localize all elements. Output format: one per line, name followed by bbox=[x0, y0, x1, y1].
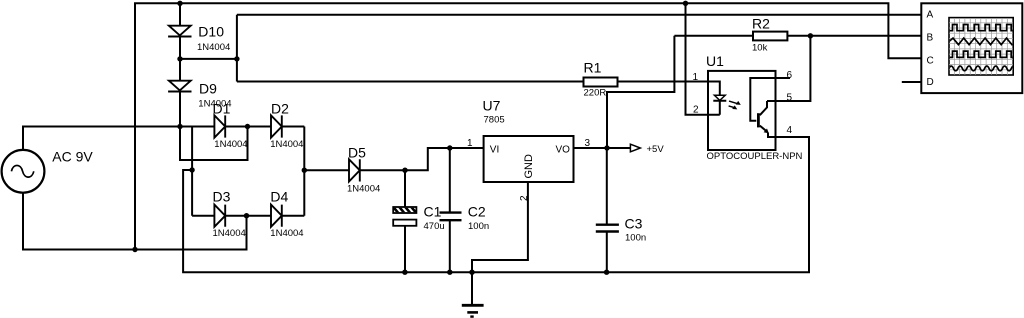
svg-text:4: 4 bbox=[787, 125, 793, 136]
svg-text:6: 6 bbox=[787, 70, 793, 81]
svg-text:D5: D5 bbox=[348, 144, 366, 160]
svg-text:1: 1 bbox=[692, 72, 698, 83]
svg-text:D4: D4 bbox=[270, 189, 288, 205]
svg-text:100n: 100n bbox=[468, 221, 489, 232]
svg-text:5: 5 bbox=[787, 93, 793, 104]
svg-text:1N4004: 1N4004 bbox=[213, 228, 246, 239]
svg-text:1N4004: 1N4004 bbox=[214, 139, 247, 150]
svg-text:GND: GND bbox=[523, 154, 535, 179]
svg-text:D10: D10 bbox=[198, 23, 224, 39]
svg-text:C: C bbox=[927, 56, 934, 67]
svg-text:D: D bbox=[927, 77, 934, 88]
svg-text:3: 3 bbox=[585, 138, 591, 149]
svg-text:C2: C2 bbox=[468, 203, 486, 219]
svg-text:D3: D3 bbox=[213, 189, 231, 205]
svg-text:R2: R2 bbox=[752, 16, 770, 32]
svg-text:B: B bbox=[927, 33, 934, 44]
svg-text:+5V: +5V bbox=[647, 144, 665, 155]
svg-text:7805: 7805 bbox=[484, 115, 505, 126]
svg-text:VI: VI bbox=[490, 145, 499, 156]
svg-text:1N4004: 1N4004 bbox=[270, 139, 303, 150]
svg-text:1N4004: 1N4004 bbox=[197, 42, 230, 53]
svg-text:C1: C1 bbox=[424, 203, 442, 219]
svg-text:AC 9V: AC 9V bbox=[52, 148, 93, 164]
svg-text:A: A bbox=[927, 10, 934, 21]
svg-text:U1: U1 bbox=[706, 53, 724, 69]
svg-text:470u: 470u bbox=[424, 221, 445, 232]
svg-text:10k: 10k bbox=[752, 43, 768, 54]
svg-text:1: 1 bbox=[467, 138, 473, 149]
svg-text:C3: C3 bbox=[625, 216, 643, 232]
svg-text:220R: 220R bbox=[584, 88, 607, 99]
svg-text:D2: D2 bbox=[271, 100, 289, 116]
svg-text:U7: U7 bbox=[483, 97, 501, 113]
svg-text:1N4004: 1N4004 bbox=[347, 184, 380, 195]
svg-text:2: 2 bbox=[519, 195, 530, 201]
svg-text:OPTOCOUPLER-NPN: OPTOCOUPLER-NPN bbox=[707, 151, 803, 162]
svg-text:VO: VO bbox=[556, 145, 571, 156]
svg-text:D1: D1 bbox=[213, 100, 231, 116]
svg-text:100n: 100n bbox=[625, 233, 646, 244]
svg-text:R1: R1 bbox=[584, 60, 602, 76]
svg-text:2: 2 bbox=[693, 105, 699, 116]
svg-text:1N4004: 1N4004 bbox=[270, 228, 303, 239]
svg-text:D9: D9 bbox=[199, 81, 217, 97]
